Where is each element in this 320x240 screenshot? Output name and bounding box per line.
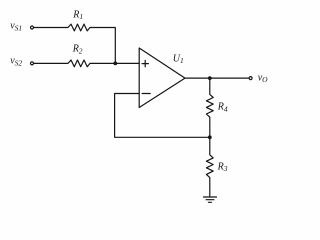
- svg-text:R4: R4: [217, 102, 228, 114]
- svg-text:R2: R2: [72, 44, 83, 56]
- svg-text:vO: vO: [258, 72, 268, 84]
- svg-text:R3: R3: [217, 161, 228, 173]
- svg-text:U1: U1: [173, 53, 184, 65]
- svg-text:vS1: vS1: [10, 21, 22, 33]
- svg-text:vS2: vS2: [10, 56, 22, 68]
- svg-text:R1: R1: [72, 9, 83, 21]
